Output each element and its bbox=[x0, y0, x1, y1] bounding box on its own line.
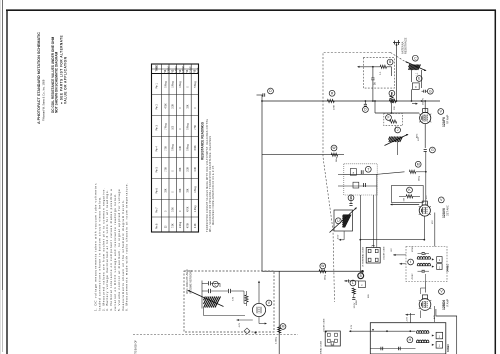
svg-text:1 Meg: 1 Meg bbox=[180, 81, 182, 88]
svg-text:J: J bbox=[397, 128, 399, 132]
svg-text:5 Meg: 5 Meg bbox=[165, 81, 167, 88]
svg-text:T: T bbox=[367, 167, 369, 171]
svg-text:344BC: 344BC bbox=[446, 264, 450, 272]
svg-text:Pin 8: Pin 8 bbox=[156, 223, 159, 229]
svg-text:B: B bbox=[360, 274, 362, 278]
svg-text:Pin 5: Pin 5 bbox=[156, 166, 159, 172]
svg-text:470K: 470K bbox=[165, 103, 167, 109]
svg-text:2.2K: 2.2K bbox=[188, 166, 190, 171]
svg-text:2.2K: 2.2K bbox=[173, 103, 175, 108]
svg-text:5 Meg: 5 Meg bbox=[173, 144, 175, 151]
svg-text:3.3K: 3.3K bbox=[180, 145, 182, 150]
svg-text:RESISTANCE: RESISTANCE bbox=[404, 37, 408, 54]
svg-text:12BA6: 12BA6 bbox=[167, 65, 170, 73]
svg-text:7.5K: 7.5K bbox=[173, 223, 175, 228]
svg-text:M: M bbox=[282, 325, 285, 329]
svg-text:6.3V: 6.3V bbox=[351, 324, 353, 329]
svg-text:33K: 33K bbox=[188, 188, 190, 193]
svg-text:-4.5V: -4.5V bbox=[407, 316, 409, 322]
svg-text:TUBE: TUBE bbox=[156, 65, 159, 72]
svg-text:50C5: 50C5 bbox=[198, 67, 200, 73]
svg-text:RESISTANCE READINGS: RESISTANCE READINGS bbox=[201, 122, 205, 160]
svg-text:Pin 1: Pin 1 bbox=[156, 82, 159, 88]
svg-text:33K: 33K bbox=[188, 104, 190, 109]
svg-text:M: M bbox=[417, 162, 420, 166]
svg-text:(A) TERMINAL GUIDE: (A) TERMINAL GUIDE bbox=[319, 340, 322, 354]
svg-text:3.3K: 3.3K bbox=[173, 207, 175, 212]
svg-text:1Meg: 1Meg bbox=[336, 156, 338, 162]
svg-text:G: G bbox=[429, 89, 432, 93]
svg-text:TRANSISTOR CIRCUIT VALUES MADE: TRANSISTOR CIRCUIT VALUES MADE WITH RCA … bbox=[206, 119, 209, 232]
svg-text:G: G bbox=[431, 148, 434, 152]
svg-text:6. Measurements made with rad: 6. Measurements made with radio chassis … bbox=[125, 182, 129, 311]
svg-text:12BD6: 12BD6 bbox=[442, 300, 446, 310]
svg-text:5 Meg: 5 Meg bbox=[188, 123, 190, 130]
svg-text:7.5K: 7.5K bbox=[165, 166, 167, 171]
svg-text:t: t bbox=[410, 260, 411, 264]
svg-text:WILL VARIATION ON INTERNAL TRA: WILL VARIATION ON INTERNAL TRANSISTOR RE… bbox=[209, 136, 212, 232]
svg-text:C: C bbox=[415, 85, 417, 89]
svg-text:5 Meg: 5 Meg bbox=[195, 81, 197, 88]
svg-text:TO BACK OF: TO BACK OF bbox=[135, 340, 138, 354]
svg-text:1Meg: 1Meg bbox=[419, 175, 421, 181]
svg-text:3.3K: 3.3K bbox=[195, 166, 197, 171]
svg-text:12AV6: 12AV6 bbox=[190, 66, 193, 73]
svg-text:1 Meg: 1 Meg bbox=[173, 81, 175, 88]
svg-text:L: L bbox=[352, 281, 354, 285]
svg-text:1 Meg: 1 Meg bbox=[195, 205, 197, 212]
svg-text:-4.5V: -4.5V bbox=[338, 234, 340, 240]
svg-text:7.5K: 7.5K bbox=[195, 124, 197, 129]
svg-text:IF AMP: IF AMP bbox=[447, 298, 450, 307]
svg-text:MEASURED FROM JUNCTION OF C3 &: MEASURED FROM JUNCTION OF C3 & R CT. bbox=[212, 165, 215, 225]
svg-text:470K: 470K bbox=[195, 145, 197, 151]
svg-text:344BC: 344BC bbox=[446, 344, 450, 352]
svg-text:470K: 470K bbox=[188, 206, 190, 212]
svg-text:Pin 6: Pin 6 bbox=[156, 187, 159, 193]
svg-text:DET-AVC: DET-AVC bbox=[447, 205, 450, 216]
svg-text:Pin 3: Pin 3 bbox=[156, 124, 159, 130]
svg-text:A PHOTOFACT STANDARD NOTATION: A PHOTOFACT STANDARD NOTATION SCHEMATIC bbox=[37, 32, 41, 124]
svg-text:VALUE OR APPLICATION: VALUE OR APPLICATION bbox=[63, 56, 67, 104]
svg-text:270K: 270K bbox=[334, 104, 336, 110]
svg-text:7 Meg: 7 Meg bbox=[165, 123, 167, 130]
svg-text:Pin 4: Pin 4 bbox=[156, 145, 159, 151]
svg-text:Pin 7: Pin 7 bbox=[156, 207, 159, 213]
svg-text:Pin 2: Pin 2 bbox=[156, 103, 159, 109]
svg-text:COLOR CODE: COLOR CODE bbox=[384, 246, 386, 260]
svg-text:RF AMP: RF AMP bbox=[447, 114, 450, 124]
svg-text:470K: 470K bbox=[188, 222, 190, 228]
svg-text:33K: 33K bbox=[165, 188, 167, 193]
svg-text:I.F. TERMINAL GUIDE: I.F. TERMINAL GUIDE bbox=[361, 246, 364, 267]
svg-text:455KC: 455KC bbox=[412, 245, 414, 252]
svg-text:455KC: 455KC bbox=[412, 273, 414, 280]
svg-text:5 Meg: 5 Meg bbox=[188, 144, 190, 151]
svg-text:12BD6: 12BD6 bbox=[183, 65, 185, 73]
svg-text:100K: 100K bbox=[394, 97, 396, 103]
svg-text:33K: 33K bbox=[180, 188, 182, 193]
svg-text:c: c bbox=[215, 282, 217, 286]
svg-text:12V: 12V bbox=[418, 137, 420, 141]
svg-text:12AF6: 12AF6 bbox=[442, 117, 446, 127]
svg-text:1.2Meg: 1.2Meg bbox=[276, 336, 278, 344]
svg-text:©Howard W. Sams & Co., Inc. 19: ©Howard W. Sams & Co., Inc. 1958 bbox=[41, 79, 45, 121]
svg-text:33K: 33K bbox=[180, 167, 182, 172]
svg-text:-1.2V: -1.2V bbox=[239, 322, 241, 328]
svg-text:6800: 6800 bbox=[356, 299, 358, 305]
svg-text:NOT SHOWN ON SCHEMATIC DIAGRAM: NOT SHOWN ON SCHEMATIC DIAGRAM bbox=[55, 51, 59, 113]
svg-text:2.2K: 2.2K bbox=[195, 223, 197, 228]
svg-text:12AV6: 12AV6 bbox=[442, 208, 446, 218]
svg-text:12.6V: 12.6V bbox=[354, 302, 356, 308]
svg-text:7.5K: 7.5K bbox=[165, 145, 167, 150]
svg-text:F: F bbox=[387, 116, 389, 120]
svg-text:1Meg: 1Meg bbox=[325, 274, 327, 280]
svg-text:1 Meg: 1 Meg bbox=[180, 221, 182, 228]
svg-text:1 Meg: 1 Meg bbox=[195, 186, 197, 193]
svg-text:12BE6: 12BE6 bbox=[176, 65, 178, 73]
svg-text:COLOR CODE: COLOR CODE bbox=[324, 318, 326, 332]
